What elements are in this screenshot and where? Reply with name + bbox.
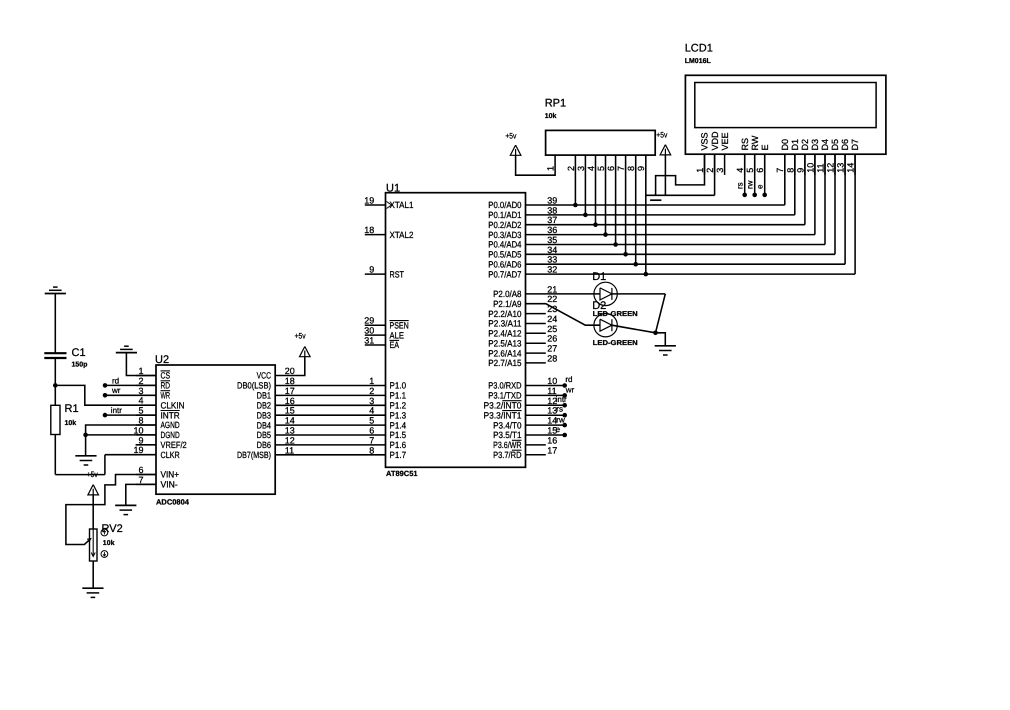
wire DB3 to P1.3 [275,414,385,416]
svg-text:CLKR: CLKR [161,450,181,460]
svg-text:9: 9 [138,435,143,445]
wire D1 cathode to ground node [612,293,665,295]
ground (below RV2) [82,587,103,589]
svg-text:P3.4/T0: P3.4/T0 [493,420,521,430]
svg-text:+5v: +5v [295,331,306,340]
svg-text:8: 8 [785,168,795,173]
U1 pin stub [526,323,546,325]
svg-text:20: 20 [285,366,295,376]
svg-text:2: 2 [369,386,374,396]
svg-text:7: 7 [775,168,785,173]
svg-text:1: 1 [695,168,705,173]
U2 pin 19 CLKR [136,454,156,456]
LCD1 screen [695,83,876,128]
svg-text:12: 12 [285,435,295,445]
svg-text:3: 3 [715,168,725,173]
svg-text:36: 36 [547,225,557,235]
LCD1 pin 14 stub [854,154,856,175]
power +5v terminal (LCD) [660,145,671,155]
svg-text:E: E [760,144,770,150]
svg-text:D1: D1 [790,139,800,151]
wire P0.1 to RP1 and LCD D1 [526,214,795,216]
U1 pin 9 RST [365,273,386,275]
U2 pin 1 CS [136,375,156,377]
svg-text:5: 5 [745,168,755,173]
svg-text:16: 16 [547,435,557,445]
svg-text:P3.5/T1: P3.5/T1 [493,430,521,440]
svg-text:P1.1: P1.1 [390,391,407,401]
svg-text:P3.1/TXD: P3.1/TXD [488,391,522,401]
svg-text:CS: CS [161,371,171,381]
svg-text:P2.2/A10: P2.2/A10 [488,309,521,319]
wire P2.0 to LED D1 [526,293,600,295]
U1 pin stub [526,454,546,456]
svg-text:19: 19 [133,445,143,455]
svg-text:wr: wr [565,386,575,395]
terminal rw (U1 P3) [526,424,565,426]
RP1 pin 1 wire to +5v [516,155,556,175]
svg-text:34: 34 [547,245,557,255]
LCD1 pin 10 stub [814,154,816,175]
terminal intr (U2 INTR pin 5) [103,413,108,418]
svg-text:P0.1/AD1: P0.1/AD1 [488,210,521,220]
svg-text:27: 27 [547,344,557,354]
wire AGND pin 8 of U2 [86,425,156,435]
LCD1 pin 1 stub [704,154,706,175]
svg-text:10k: 10k [103,539,115,547]
node P0.0/RP1 junction [573,203,578,208]
U2 pin 7 VIN- [136,483,156,485]
wire junction to ground [85,435,87,456]
wire R1 bottom to CLKR net [54,435,56,475]
svg-text:29: 29 [364,316,374,326]
svg-text:P2.7/A15: P2.7/A15 [488,358,521,368]
svg-text:RD: RD [161,381,171,391]
power +5v terminal for RV2 [88,485,99,495]
terminal rs (LCD RS pin 4) [744,154,746,195]
svg-text:rd: rd [112,376,119,385]
svg-text:e: e [755,184,764,189]
svg-text:39: 39 [547,196,557,206]
svg-text:P2.4/A12: P2.4/A12 [488,329,521,339]
svg-text:4: 4 [138,396,143,406]
wire junction to ground [656,333,666,346]
svg-text:intr: intr [556,395,567,404]
svg-text:P3.7/RD: P3.7/RD [493,450,522,460]
wire DB7 to P1.7 [275,454,385,456]
svg-text:24: 24 [547,314,557,324]
svg-text:32: 32 [547,265,557,275]
wire +5v to LCD VDD and RP1 pin 9 [714,154,716,195]
svg-text:9: 9 [636,166,646,171]
svg-text:11: 11 [285,445,294,455]
U2 pin 3 WR [136,394,156,396]
svg-text:intr: intr [111,406,122,415]
capacitor C1 [44,352,66,354]
svg-text:10k: 10k [65,419,77,427]
wire RP1 pin 8 down [635,155,637,264]
svg-text:P1.2: P1.2 [390,401,407,411]
wire DB0 to P1.0 [275,385,385,387]
U1 pin 31 EA [365,344,386,346]
svg-text:DB7(MSB): DB7(MSB) [237,450,271,460]
svg-text:WR: WR [161,391,171,401]
svg-text:10: 10 [133,425,143,435]
wire VREF/2 stub pin 9 of U2 [136,444,156,446]
svg-text:D0: D0 [780,139,790,151]
U2 pin 8 AGND [136,424,156,426]
svg-text:30: 30 [364,326,374,336]
U1 pin stub [526,342,546,344]
svg-text:D2: D2 [800,139,810,151]
svg-text:VEE: VEE [720,132,730,150]
wire DB6 to P1.6 [275,444,385,446]
svg-text:4: 4 [735,168,745,173]
svg-text:P2.0/A8: P2.0/A8 [493,289,521,299]
wire ground to C1 [54,294,56,354]
node P0.6/RP1 junction [633,262,638,267]
wire P0.2 to RP1 and LCD D2 [526,224,805,226]
svg-text:C1: C1 [72,347,86,359]
wire DB1 to P1.1 [275,394,385,396]
svg-text:14: 14 [845,163,855,173]
wire VCC pin 20 of U2 to +5v [275,357,305,376]
svg-text:P2.6/A14: P2.6/A14 [488,348,521,358]
LCD1 pin 3 stub [724,154,726,175]
svg-text:RST: RST [390,269,405,279]
svg-text:P2.3/A11: P2.3/A11 [488,319,521,329]
svg-text:17: 17 [547,445,557,455]
svg-text:VREF/2: VREF/2 [161,440,187,450]
svg-text:+5v: +5v [656,130,667,139]
svg-text:P3.2/INT0: P3.2/INT0 [484,401,522,411]
svg-text:rw: rw [745,180,754,189]
wire LCD VSS to ground [656,154,705,195]
wire RP1 pin 9 down [645,155,647,274]
svg-text:25: 25 [547,324,557,334]
wire P0.0 to RP1 and LCD D0 [526,204,785,206]
wire DB2 to P1.2 [275,404,385,406]
svg-text:LCD1: LCD1 [685,43,713,55]
U1 pin 29 PSEN [365,324,386,326]
U2 pin 5 INTR [136,414,156,416]
svg-text:22: 22 [547,294,557,304]
svg-text:VSS: VSS [700,132,710,150]
LED D2 [594,314,617,337]
svg-text:AGND: AGND [161,420,181,430]
svg-text:P1.5: P1.5 [390,430,407,440]
svg-text:21: 21 [547,284,557,294]
terminal rs (U1 P3) [526,414,565,416]
svg-text:18: 18 [364,225,374,235]
svg-text:U2: U2 [155,354,169,366]
svg-text:9: 9 [369,265,374,275]
svg-text:38: 38 [547,205,557,215]
svg-text:P0.5/AD5: P0.5/AD5 [488,250,521,260]
LCD1 pin 12 stub [834,154,836,175]
terminal rd (U1 P3) [526,385,565,387]
svg-text:wr: wr [111,386,121,395]
ground (DGND) [75,455,96,457]
power +5v terminal (U2 VCC) [300,347,311,357]
node P0.4/RP1 junction [613,242,618,247]
svg-text:P1.3: P1.3 [390,410,407,420]
LCD1 pin 6 stub [764,154,766,175]
svg-text:D2: D2 [592,300,606,312]
svg-text:P0.0/AD0: P0.0/AD0 [488,200,521,210]
svg-text:8: 8 [138,416,143,426]
wire P0.5 to RP1 and LCD D5 [526,253,836,255]
svg-text:DB0(LSB): DB0(LSB) [237,381,271,391]
wire DB4 to P1.4 [275,424,385,426]
svg-text:VIN+: VIN+ [161,470,180,480]
U2 pin 4 CLKIN [136,404,156,406]
U1 pin stub [526,332,546,334]
svg-text:INTR: INTR [161,410,181,420]
svg-text:XTAL2: XTAL2 [390,230,414,240]
node AGND/DGND junction [83,433,88,438]
svg-text:D3: D3 [810,139,820,151]
svg-text:R1: R1 [65,403,79,415]
LCD1 pin 11 stub [824,154,826,175]
svg-text:16: 16 [285,396,295,406]
svg-text:U1: U1 [386,183,400,195]
svg-text:1: 1 [546,166,556,171]
wire RV2 wiper to VIN+ route [66,475,156,545]
svg-text:15: 15 [285,406,295,416]
svg-text:P3.6/WR: P3.6/WR [493,440,522,450]
U1 pin 18 XTAL2 [365,234,386,236]
ground (VIN-) [115,504,136,506]
U1 pin stub [526,352,546,354]
svg-text:5: 5 [369,416,374,426]
wire +5v to RV2 top [92,495,94,529]
svg-text:3: 3 [138,386,143,396]
svg-text:9: 9 [795,168,805,173]
potentiometer RV2 [90,529,98,561]
wire RP1 pin 3 down [584,155,586,215]
svg-text:P0.6/AD6: P0.6/AD6 [488,259,521,269]
svg-text:P1.6: P1.6 [390,440,407,450]
terminal wr (U2 WR pin 3) [103,393,108,398]
node P0.2/RP1 junction [593,222,598,227]
U2 pin 6 VIN+ [136,474,156,476]
LED D1 [594,282,617,305]
wire RP1 pin 6 down [615,155,617,244]
svg-text:6: 6 [369,426,374,436]
svg-text:1: 1 [369,376,374,386]
svg-text:8: 8 [369,445,374,455]
svg-text:P1.4: P1.4 [390,420,407,430]
svg-text:DB3: DB3 [257,410,271,420]
svg-text:P0.3/AD3: P0.3/AD3 [488,230,521,240]
wire RP1 pin 5 down [605,155,607,235]
svg-text:5: 5 [138,406,143,416]
svg-text:4: 4 [369,406,374,416]
ground (top left, above C1) [53,286,58,288]
svg-text:19: 19 [364,196,374,206]
svg-text:7: 7 [369,435,374,445]
terminal intr (U1 P3) [526,404,565,406]
terminal wr (U1 P3) [526,394,565,396]
U1 pin stub [526,313,546,315]
svg-text:2: 2 [705,168,715,173]
svg-text:DB4: DB4 [257,420,271,430]
svg-text:P2.5/A13: P2.5/A13 [488,338,521,348]
node P0.1/RP1 junction [583,213,588,218]
svg-text:P3.3/INT1: P3.3/INT1 [484,410,522,420]
svg-text:P0.7/AD7: P0.7/AD7 [488,269,521,279]
svg-text:P1.7: P1.7 [390,450,407,460]
svg-text:LM016L: LM016L [685,58,712,65]
power +5v terminal (RP1) [510,145,521,155]
svg-text:DB5: DB5 [257,430,271,440]
svg-text:e: e [556,425,561,434]
svg-text:+5v: +5v [87,470,98,479]
MCU U1 body [386,193,526,468]
node C1/R1/CLKIN junction [53,383,58,388]
svg-text:12: 12 [825,163,835,173]
wire DGND pin 10 of U2 [86,434,156,436]
U1 pin 19 XTAL1 [365,204,386,206]
svg-text:D7: D7 [850,139,860,151]
svg-text:DB1: DB1 [257,391,271,401]
svg-text:35: 35 [547,235,557,245]
svg-text:8: 8 [626,166,636,171]
svg-text:CLKIN: CLKIN [161,400,185,410]
LCD1 pin 2 stub [714,154,716,175]
svg-text:P0.2/AD2: P0.2/AD2 [488,220,521,230]
U1 pin stub [526,362,546,364]
ADC U2 body [156,365,275,494]
svg-text:rs: rs [556,405,563,414]
svg-text:ALE: ALE [390,330,404,340]
U1 pin 30 ALE [365,334,386,336]
wire P0.4 to RP1 and LCD D4 [526,244,826,246]
wire C1 to node [54,358,56,385]
terminal rw (LCD RW pin 5) [754,154,756,195]
svg-text:28: 28 [547,353,557,363]
U1 XTAL1 clock chevron [387,202,392,209]
ground (above U2 pin 1) [124,345,129,347]
U2 pin 2 RD [136,384,156,386]
svg-text:11: 11 [815,163,825,172]
svg-text:rd: rd [565,375,572,384]
svg-text:EA: EA [390,340,400,350]
wire CLKR pin 19 of U2 down [104,455,106,475]
svg-text:18: 18 [285,376,295,386]
LCD1 pin 4 stub [744,154,746,175]
svg-text:6: 6 [755,168,765,173]
svg-text:3: 3 [576,166,586,171]
svg-text:D6: D6 [840,139,850,151]
ground (LCD VSS) [650,199,661,201]
svg-text:DB2: DB2 [257,401,271,411]
svg-text:RS: RS [740,138,750,151]
wire RP1 pin 7 down [625,155,627,254]
svg-text:DGND: DGND [161,430,181,440]
node P0.5/RP1 junction [623,252,628,257]
svg-text:+5v: +5v [505,131,516,140]
resistor pack RP1 [546,130,656,155]
svg-text:7: 7 [616,166,626,171]
wire +5v arrow down [664,155,666,195]
wire DB5 to P1.5 [275,434,385,436]
terminal rd (U2 RD pin 2) [103,383,108,388]
wire node to CLKIN pin 4 of U2 [55,385,156,405]
node P0.3/RP1 junction [603,232,608,237]
svg-text:ADC0804: ADC0804 [156,498,190,507]
svg-text:10: 10 [805,163,815,173]
wire P0.6 to RP1 and LCD D6 [526,263,846,265]
node P0.7/RP1 junction [644,272,649,277]
svg-text:D4: D4 [820,139,830,151]
svg-text:PSEN: PSEN [390,320,409,330]
wire D2 cathode to ground node [612,325,656,333]
svg-text:RW: RW [750,135,760,150]
svg-text:RP1: RP1 [545,98,566,110]
svg-text:31: 31 [364,336,374,346]
wire P0.7 to RP1 and LCD D7 [526,273,856,275]
svg-text:6: 6 [138,465,143,475]
svg-text:2: 2 [566,166,576,171]
svg-text:6: 6 [606,166,616,171]
wire ground to CS pin 1 of U2 [126,353,156,376]
svg-text:D5: D5 [830,139,840,151]
U2 pin 10 DGND [136,434,156,436]
svg-text:VIN-: VIN- [161,480,178,490]
svg-text:AT89C51: AT89C51 [386,469,418,478]
svg-text:5: 5 [596,166,606,171]
node LED cathodes junction [653,331,658,336]
svg-text:D1: D1 [592,271,606,283]
svg-text:2: 2 [138,376,143,386]
svg-text:VCC: VCC [257,371,272,381]
resistor R1 [54,385,56,405]
terminal e (LCD E pin 6) [764,154,766,195]
U1 pin stub [526,444,546,446]
LCD LCD1 body [685,75,886,154]
svg-text:P1.0: P1.0 [390,381,407,391]
svg-text:26: 26 [547,334,557,344]
svg-text:37: 37 [547,215,557,225]
terminal e (U1 P3) [526,434,565,436]
svg-text:P2.1/A9: P2.1/A9 [493,299,521,309]
svg-text:10k: 10k [545,112,557,120]
ground (LEDs) [655,345,676,347]
wire RV2 bottom to ground [92,561,94,588]
svg-text:XTAL1: XTAL1 [390,200,414,210]
svg-text:P0.4/AD4: P0.4/AD4 [488,240,521,250]
LCD1 pin 9 stub [804,154,806,175]
svg-text:150p: 150p [72,362,88,369]
wire RP1 pin 2 down [574,155,576,205]
wire P0.3 to RP1 and LCD D3 [526,234,815,236]
svg-text:14: 14 [285,416,295,426]
wire VIN- pin 7 of U2 to ground [126,484,156,505]
svg-text:33: 33 [547,255,557,265]
LCD1 pin 8 stub [794,154,796,175]
LCD1 pin 13 stub [844,154,846,175]
svg-text:rs: rs [735,182,744,189]
svg-text:17: 17 [285,386,295,396]
svg-text:rw: rw [556,415,565,424]
LCD1 pin 5 stub [754,154,756,175]
LCD1 pin 7 stub [784,154,786,175]
wire RP1 pin 4 down [595,155,597,225]
svg-text:1: 1 [138,366,143,376]
svg-text:10: 10 [547,376,557,386]
